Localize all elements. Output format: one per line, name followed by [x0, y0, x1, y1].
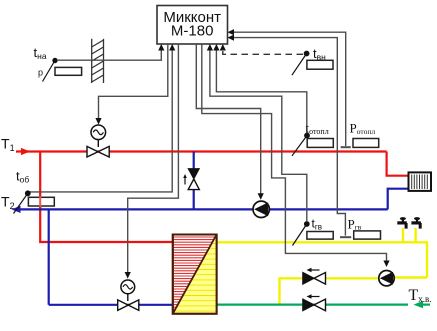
- pipe blue bypass lower: [193, 189, 195, 209]
- heat exchanger: [173, 235, 217, 314]
- wire P_гв to controller right side: [228, 35, 352, 238]
- valve V2 on bottom blue: [118, 300, 139, 311]
- pipe red branch to heat exchanger: [40, 152, 173, 243]
- wire t_отопл sensor to controller: [216, 49, 306, 133]
- sensor t_на (outdoor temp): [34, 45, 82, 82]
- pipe yellow faucet stub 1: [402, 228, 404, 242]
- pipe blue branch down: [48, 209, 50, 304]
- pipe yellow recirculation left: [280, 278, 380, 304]
- pipe yellow faucet stub 2: [414, 228, 416, 242]
- sensor P_отопл: [350, 121, 379, 148]
- pump P1: [253, 201, 269, 217]
- wall hatching: [92, 39, 104, 83]
- sensor t_гв: [293, 217, 334, 246]
- pump P2: [379, 271, 394, 286]
- sensor t_отопл: [292, 120, 333, 156]
- wire t_об sensor to controller: [29, 44, 175, 192]
- controller U1 Микконт М-180: [157, 6, 228, 45]
- pipe yellow hot water main: [216, 242, 427, 277]
- wire controller to pump P1: [196, 44, 263, 200]
- valve V1 on red main: [87, 146, 109, 157]
- motor M1: [91, 125, 106, 147]
- pipe green cold water: [216, 301, 430, 308]
- sensor t_об: [14, 169, 55, 214]
- wire t_на to controller: [57, 44, 164, 60]
- pipe red to radiator: [387, 152, 409, 176]
- radiator: [409, 172, 432, 191]
- wire controller to valve V2 motor: [125, 44, 179, 279]
- sensor P_гв: [348, 216, 381, 239]
- svg-text:М-180: М-180: [171, 23, 214, 40]
- pipe blue bypass upper: [193, 152, 195, 170]
- wire t_вн dashed to controller: [220, 44, 303, 54]
- pipe blue bottom to exchanger: [49, 304, 173, 306]
- pipe T1 red main: [16, 148, 387, 155]
- wire t_гв sensor to controller: [210, 49, 307, 221]
- motor M2: [121, 280, 135, 301]
- check valve K2 on green line: [303, 294, 326, 310]
- sensor t_вн: [292, 46, 333, 75]
- bypass valve on blue jumper: [183, 169, 199, 190]
- pipe yellow recirculation right: [394, 276, 427, 278]
- svg-text:р: р: [38, 68, 43, 78]
- wire controller to pump P2: [202, 44, 390, 267]
- check valve K1 on yellow recirculation: [303, 268, 326, 284]
- wire P_отопл to controller right side: [228, 29, 351, 147]
- faucet 2: [411, 217, 421, 229]
- pipe blue from radiator: [388, 189, 409, 210]
- red pipe segment crossing t_об sensor body: [39, 197, 41, 207]
- faucet 1: [397, 217, 407, 229]
- wire controller to valve V1 motor: [95, 44, 167, 125]
- pipe T2 blue main: [12, 206, 388, 213]
